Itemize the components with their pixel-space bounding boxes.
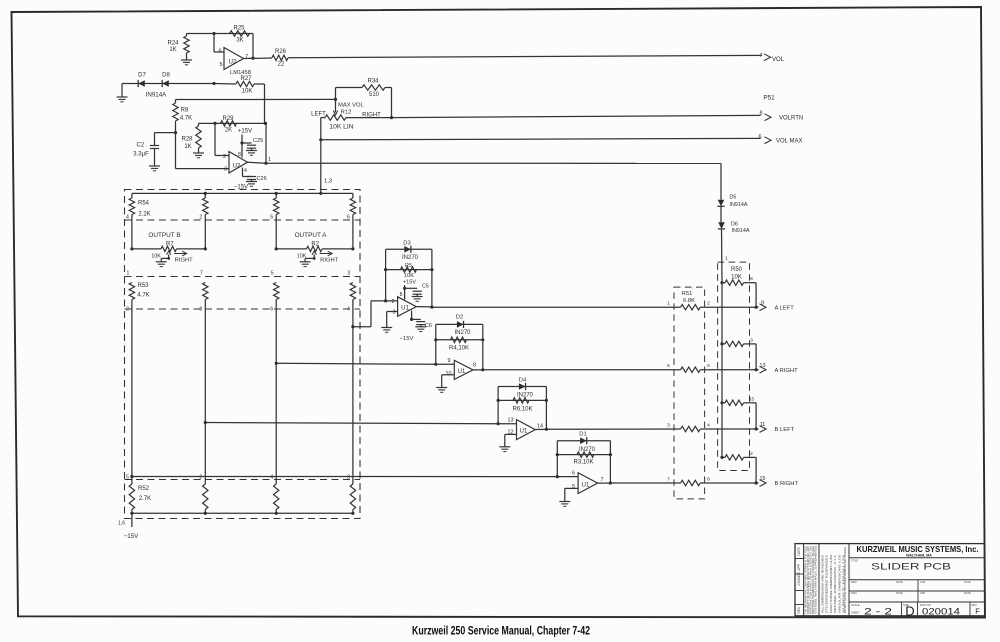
- svg-text:R51: R51: [682, 291, 693, 297]
- svg-text:R50: R50: [731, 267, 743, 273]
- svg-text:7: 7: [667, 476, 670, 482]
- svg-text:5: 5: [219, 62, 222, 68]
- svg-text:10: 10: [446, 371, 452, 377]
- svg-text:D5: D5: [730, 195, 737, 201]
- svg-text:IN914A: IN914A: [146, 92, 168, 99]
- svg-text:4: 4: [707, 422, 710, 428]
- svg-text:7: 7: [200, 271, 203, 277]
- svg-text:6: 6: [572, 471, 575, 477]
- svg-text:10K: 10K: [297, 254, 307, 260]
- svg-text:11: 11: [760, 422, 766, 428]
- svg-text:CHANGE: CHANGE: [797, 572, 801, 586]
- svg-text:VOLRTN: VOLRTN: [779, 116, 803, 122]
- svg-text:020014: 020014: [922, 606, 960, 616]
- svg-text:DATE: DATE: [964, 591, 971, 595]
- svg-text:6: 6: [270, 307, 273, 313]
- svg-text:7: 7: [759, 53, 762, 59]
- svg-text:R6,10K: R6,10K: [512, 407, 532, 413]
- svg-text:C6: C6: [425, 323, 432, 329]
- svg-text:D7: D7: [138, 73, 146, 79]
- svg-text:8: 8: [707, 476, 710, 482]
- svg-text:2: 2: [223, 154, 226, 160]
- svg-text:R27: R27: [240, 76, 252, 82]
- svg-text:3: 3: [224, 167, 227, 173]
- svg-text:IN270: IN270: [579, 447, 596, 453]
- svg-text:4.7K: 4.7K: [137, 293, 149, 299]
- svg-text:6.8K: 6.8K: [683, 298, 695, 304]
- svg-text:R53: R53: [137, 283, 149, 289]
- svg-text:B LEFT: B LEFT: [775, 427, 795, 433]
- svg-text:C26: C26: [257, 176, 267, 182]
- svg-text:7: 7: [601, 477, 604, 483]
- svg-text:6: 6: [758, 134, 761, 140]
- svg-text:TITLE: TITLE: [851, 559, 858, 563]
- svg-text:C25: C25: [253, 138, 263, 144]
- svg-text:IN270: IN270: [454, 330, 471, 336]
- svg-text:R12: R12: [341, 110, 352, 116]
- svg-text:1: 1: [126, 271, 129, 277]
- svg-text:LEFT: LEFT: [311, 112, 326, 118]
- svg-text:4: 4: [347, 307, 350, 313]
- svg-text:DRN: DRN: [851, 580, 857, 584]
- svg-text:15: 15: [760, 476, 766, 482]
- svg-text:2: 2: [707, 301, 710, 307]
- svg-text:1,6: 1,6: [118, 521, 125, 527]
- svg-text:3: 3: [750, 337, 753, 343]
- svg-text:2: 2: [750, 451, 753, 457]
- svg-text:R4,10K: R4,10K: [449, 346, 469, 352]
- svg-text:U2: U2: [229, 59, 237, 66]
- svg-text:D2: D2: [456, 315, 463, 321]
- svg-text:10K: 10K: [242, 89, 253, 95]
- svg-text:8: 8: [199, 307, 202, 313]
- svg-text:RIGHT: RIGHT: [175, 258, 193, 264]
- svg-text:5: 5: [271, 271, 274, 277]
- svg-text:D: D: [905, 604, 914, 619]
- svg-text:DSN: DSN: [851, 591, 857, 595]
- svg-text:9: 9: [448, 358, 451, 364]
- svg-text:P51: P51: [763, 95, 775, 102]
- svg-text:−15V: −15V: [400, 336, 414, 342]
- svg-text:1: 1: [667, 301, 670, 307]
- svg-text:APP: APP: [920, 591, 925, 595]
- svg-text:KURZWEIL MUSIC SYSTEMS, Inc.: KURZWEIL MUSIC SYSTEMS, Inc.: [857, 545, 979, 554]
- svg-text:R29: R29: [222, 116, 234, 122]
- svg-text:REV: REV: [797, 606, 801, 613]
- svg-text:IN914A: IN914A: [730, 202, 748, 208]
- svg-text:R5: R5: [405, 263, 412, 269]
- svg-text:+15V: +15V: [238, 129, 252, 135]
- svg-text:2: 2: [199, 475, 202, 481]
- svg-text:13: 13: [760, 363, 766, 369]
- svg-text:8: 8: [400, 292, 403, 298]
- svg-text:R34: R34: [367, 79, 379, 85]
- svg-text:2: 2: [199, 215, 202, 221]
- svg-text:R52: R52: [138, 486, 150, 492]
- svg-text:10K LIN: 10K LIN: [329, 124, 353, 131]
- svg-text:U1: U1: [582, 483, 590, 489]
- svg-text:D4: D4: [519, 378, 527, 384]
- svg-text:3: 3: [667, 422, 670, 428]
- svg-text:SYSTEMS, WALTHAM MASS. IS PROH: SYSTEMS, WALTHAM MASS. IS PROHIBITED: [815, 546, 818, 614]
- svg-text:10K: 10K: [151, 254, 161, 260]
- svg-text:R28: R28: [181, 137, 193, 143]
- svg-text:Kurzweil 250 Service Manual, C: Kurzweil 250 Service Manual, Chapter 7-4…: [412, 625, 590, 638]
- svg-text:U1: U1: [458, 369, 466, 375]
- svg-text:R54: R54: [138, 201, 150, 207]
- svg-text:5: 5: [667, 363, 670, 369]
- svg-text:DATE: DATE: [797, 547, 801, 555]
- svg-text:DATE: DATE: [896, 591, 903, 595]
- svg-text:2.2K: 2.2K: [138, 212, 150, 218]
- svg-text:1K: 1K: [184, 144, 191, 150]
- svg-text:F: F: [975, 607, 980, 616]
- svg-text:−15V: −15V: [124, 533, 139, 540]
- svg-text:4.7K: 4.7K: [180, 116, 192, 122]
- svg-text:D6: D6: [731, 221, 738, 227]
- svg-text:8: 8: [238, 152, 241, 158]
- svg-text:APP: APP: [797, 564, 801, 570]
- svg-text:3: 3: [347, 271, 350, 277]
- svg-text:7: 7: [245, 54, 248, 60]
- svg-text:510: 510: [369, 92, 380, 98]
- svg-text:A LEFT: A LEFT: [775, 305, 795, 311]
- svg-text:5: 5: [270, 215, 273, 221]
- svg-text:IN914A: IN914A: [732, 228, 750, 234]
- svg-text:13: 13: [508, 418, 514, 424]
- svg-text:DATE: DATE: [964, 580, 971, 584]
- svg-text:1: 1: [725, 256, 728, 262]
- svg-text:6: 6: [707, 363, 710, 369]
- svg-text:10K: 10K: [404, 273, 414, 279]
- svg-text:C5: C5: [422, 284, 429, 290]
- svg-text:1K: 1K: [169, 47, 176, 53]
- svg-text:14: 14: [537, 424, 543, 430]
- svg-text:3.3µF: 3.3µF: [133, 152, 149, 158]
- svg-text:+15V: +15V: [403, 280, 416, 286]
- svg-text:WALTHAM, MA: WALTHAM, MA: [906, 554, 932, 558]
- svg-text:U1: U1: [520, 429, 528, 435]
- svg-text:6: 6: [218, 49, 221, 55]
- svg-text:D8: D8: [162, 73, 170, 79]
- svg-text:15: 15: [749, 396, 755, 402]
- svg-text:1: 1: [268, 157, 271, 163]
- svg-text:U2: U2: [233, 163, 241, 170]
- svg-text:A RIGHT: A RIGHT: [775, 368, 799, 374]
- svg-text:8: 8: [473, 363, 476, 369]
- svg-text:4: 4: [244, 168, 247, 174]
- svg-text:SCALE: SCALE: [851, 603, 860, 607]
- svg-text:OUTPUT A: OUTPUT A: [295, 232, 328, 239]
- svg-text:2.7K: 2.7K: [139, 496, 151, 502]
- svg-text:R25: R25: [233, 26, 245, 32]
- svg-text:4: 4: [126, 215, 129, 221]
- svg-text:2 - 2: 2 - 2: [864, 607, 892, 618]
- svg-text:MAX VOL: MAX VOL: [338, 103, 365, 109]
- svg-text:2: 2: [126, 307, 129, 313]
- svg-text:3: 3: [393, 310, 396, 316]
- svg-text:8: 8: [759, 111, 762, 117]
- svg-text:5: 5: [572, 484, 575, 490]
- svg-text:6: 6: [750, 276, 753, 282]
- svg-text:4: 4: [270, 475, 273, 481]
- svg-text:B RIGHT: B RIGHT: [775, 481, 799, 487]
- svg-text:6: 6: [347, 215, 350, 221]
- svg-text:OUTPUT B: OUTPUT B: [148, 232, 180, 239]
- svg-text:D3: D3: [403, 241, 410, 247]
- svg-text:R8: R8: [181, 108, 189, 114]
- svg-text:2: 2: [392, 299, 395, 305]
- svg-text:R26: R26: [275, 49, 287, 55]
- svg-text:SHEET: SHEET: [851, 611, 860, 615]
- svg-text:SLIDER PCB: SLIDER PCB: [871, 562, 951, 573]
- svg-text:CHK: CHK: [920, 580, 926, 584]
- svg-text:9: 9: [761, 300, 764, 306]
- svg-text:R3,10K: R3,10K: [573, 460, 593, 466]
- svg-text:2K: 2K: [225, 128, 232, 134]
- svg-text:DO NOT SCALE DRAWING REMOVE A: DO NOT SCALE DRAWING REMOVE ALL BURRS: [843, 547, 847, 613]
- svg-text:1,3: 1,3: [324, 179, 332, 185]
- svg-text:DATE: DATE: [896, 580, 903, 584]
- svg-text:U1: U1: [401, 306, 409, 312]
- svg-text:C2 .: C2 .: [136, 143, 147, 149]
- svg-text:3K: 3K: [236, 38, 243, 44]
- svg-text:D1: D1: [579, 432, 586, 438]
- svg-text:22: 22: [278, 62, 285, 68]
- svg-text:R24: R24: [167, 41, 179, 47]
- svg-text:5: 5: [126, 475, 129, 481]
- svg-text:VOL: VOL: [772, 57, 785, 63]
- svg-text:RIGHT: RIGHT: [320, 258, 338, 264]
- svg-text:3: 3: [347, 475, 350, 481]
- svg-text:IN270: IN270: [402, 255, 419, 261]
- svg-text:VOL MAX: VOL MAX: [776, 139, 802, 145]
